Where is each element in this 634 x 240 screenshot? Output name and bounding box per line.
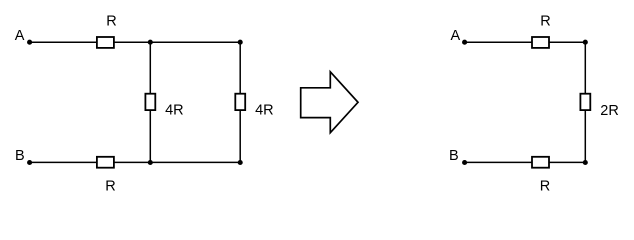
block arrow (equivalence) [301, 72, 358, 133]
wire: left circuit right vertical branch [239, 42, 241, 162]
junction top (right circuit) [583, 40, 588, 45]
svg-text:4R: 4R [165, 102, 184, 118]
junction bottom right (left circuit) [238, 160, 243, 165]
svg-text:B: B [15, 148, 25, 164]
junction top middle (left circuit) [148, 40, 153, 45]
junction top right (left circuit) [238, 40, 243, 45]
resistor 4R (right vertical) [235, 94, 245, 110]
svg-text:A: A [15, 28, 25, 44]
svg-text:B: B [449, 148, 459, 164]
wire: right circuit top rail [465, 41, 586, 43]
resistor R (top right, horizontal) [532, 37, 549, 48]
junction bottom middle (left circuit) [148, 160, 153, 165]
svg-text:2R: 2R [600, 103, 619, 119]
node A terminal dot (right circuit) [462, 40, 467, 45]
svg-text:R: R [540, 179, 550, 195]
svg-text:R: R [540, 14, 550, 30]
resistor 2R (right circuit vertical) [580, 94, 590, 110]
svg-text:A: A [451, 28, 461, 44]
resistor R (bottom right, horizontal) [532, 157, 549, 168]
resistor R (top left, horizontal) [97, 37, 114, 48]
svg-text:R: R [106, 14, 116, 30]
wire: left circuit bottom rail B to right branch [30, 161, 241, 163]
wire: left circuit top rail A to right branch [30, 41, 241, 43]
node A terminal dot (left circuit) [27, 40, 32, 45]
resistor R (bottom left, horizontal) [97, 157, 114, 168]
wire: left circuit middle vertical branch [149, 42, 151, 162]
junction bottom (right circuit) [583, 160, 588, 165]
resistor 4R (middle vertical) [145, 94, 155, 110]
svg-text:4R: 4R [255, 102, 274, 118]
wire: right circuit bottom rail [465, 161, 586, 163]
node B terminal dot (right circuit) [462, 160, 467, 165]
node B terminal dot (left circuit) [27, 160, 32, 165]
svg-text:R: R [105, 179, 115, 195]
wire: right circuit vertical branch [584, 42, 586, 162]
